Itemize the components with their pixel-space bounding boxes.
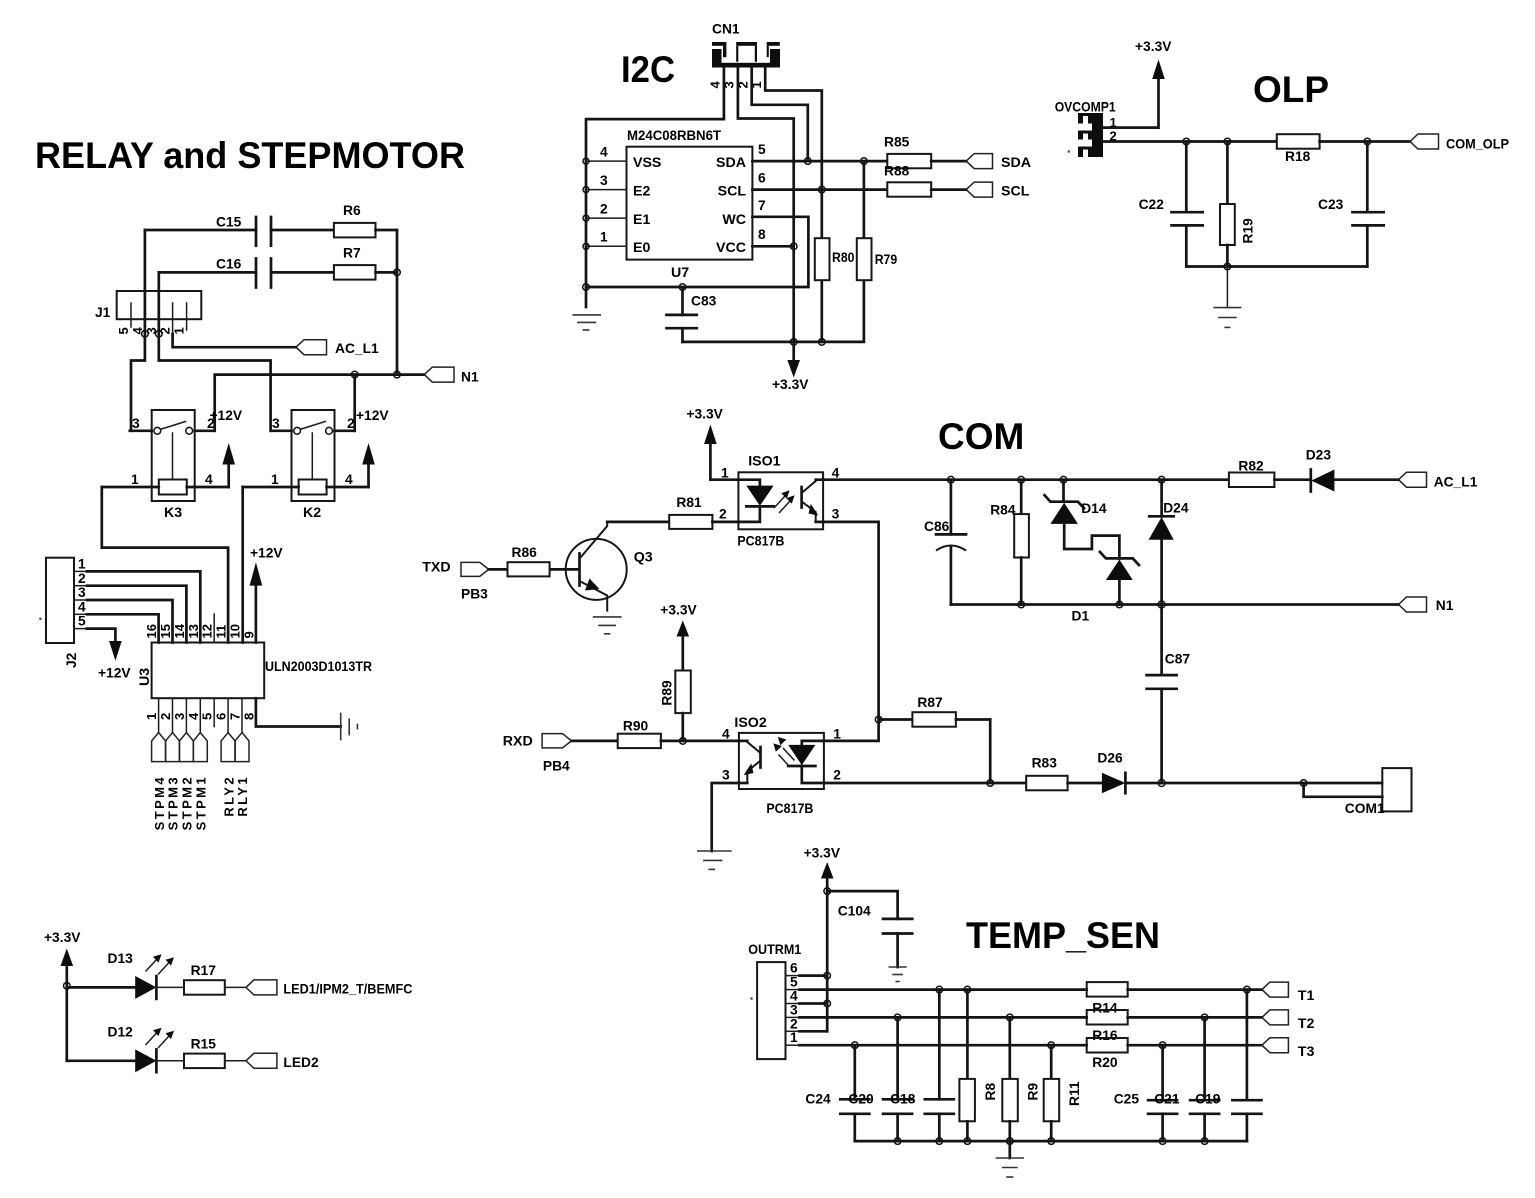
svg-text:8: 8 [241,713,256,720]
svg-text:OLP: OLP [1253,69,1329,110]
svg-text:R86: R86 [512,545,538,560]
wire N1 row COM [951,603,1399,606]
svg-text:RELAY and STEPMOTOR: RELAY and STEPMOTOR [35,135,465,176]
svg-text:D26: D26 [1097,751,1123,766]
svg-text:5: 5 [790,975,798,990]
relay K2 [243,410,369,521]
svg-text:11: 11 [214,625,229,639]
flag SDA [966,154,1031,171]
svg-text:3: 3 [832,507,840,522]
svg-text:4: 4 [345,472,353,487]
ground at I2C left bus [573,315,602,330]
svg-text:C23: C23 [1318,197,1344,212]
svg-text:+3.3V: +3.3V [1135,39,1172,54]
node N1/K2 [351,371,358,378]
svg-text:2: 2 [347,416,355,431]
node gnd bus left [583,284,590,291]
wire U7 pin6 SCL line [752,171,887,190]
resistor R81 [607,495,738,529]
svg-text:AC_L1: AC_L1 [1434,475,1478,490]
node R87 tap [875,716,882,723]
LED D13 [67,951,174,999]
ground at C104 [889,967,907,982]
resistor R85 [884,135,966,169]
svg-text:2: 2 [78,571,86,586]
svg-text:ULN2003D1013TR: ULN2003D1013TR [265,659,372,675]
flag RLY2 [221,733,236,817]
flag TXD [422,560,489,602]
resistor R8 [959,986,998,1141]
svg-text:PC817B: PC817B [737,534,784,549]
svg-text:R7: R7 [343,246,361,261]
svg-text:STPM3: STPM3 [166,775,181,830]
optocoupler ISO2 PC817B [722,715,841,816]
connector OVCOMP1 [1055,100,1117,158]
optocoupler ISO1 PC817B [719,453,840,548]
svg-text:VCC: VCC [716,240,746,256]
svg-text:R16: R16 [1092,1028,1118,1043]
capacitor C25 [1114,1042,1177,1141]
wire J1 pin3 to K2 pin3 [159,272,271,430]
wire J1 pin2 to AC_L1 flag [173,334,296,347]
power +3.3V at TEMP_SEN [804,846,841,1032]
wire K2 pin2 riser [353,375,356,431]
flag RLY1 [235,733,250,817]
wire U7 pin5 SDA line [752,142,887,161]
svg-text:+3.3V: +3.3V [804,846,841,861]
wire U7 pin4 stub [583,145,627,165]
svg-text:C22: C22 [1139,197,1165,212]
svg-text:R18: R18 [1285,149,1311,164]
svg-text:6: 6 [790,961,798,976]
ground at OLP [1213,267,1241,328]
capacitor C16 [159,257,334,288]
resistor R83 [1026,756,1102,791]
flag STPM2 [179,733,194,831]
connector CN1 [708,22,781,89]
svg-text:+12V: +12V [250,546,283,561]
svg-text:4: 4 [832,466,840,481]
svg-text:K2: K2 [303,505,321,521]
node C87/bus [1158,780,1165,787]
node bus/R80 [819,339,826,346]
zener diode D14 [1045,476,1120,558]
wire N1 bus [215,375,425,431]
svg-text:4: 4 [186,712,201,720]
svg-text:E2: E2 [633,184,650,200]
svg-text:2: 2 [600,202,608,217]
svg-text:D24: D24 [1163,501,1189,516]
flag N1 (COM) [1399,597,1454,613]
svg-text:T3: T3 [1298,1044,1315,1060]
svg-text:C25: C25 [1114,1092,1140,1107]
svg-text:PB3: PB3 [461,587,488,602]
svg-text:SCL: SCL [1001,184,1030,200]
svg-text:1: 1 [78,557,86,572]
svg-text:U3: U3 [137,668,153,686]
svg-text:1: 1 [790,1030,798,1045]
svg-text:M24C08RBN6T: M24C08RBN6T [627,128,721,144]
svg-text:OVCOMP1: OVCOMP1 [1055,100,1116,115]
svg-text:3: 3 [132,416,140,431]
resistor R14 [1087,982,1262,1015]
svg-text:COM_OLP: COM_OLP [1446,137,1509,152]
svg-text:C104: C104 [838,904,871,919]
svg-text:R9: R9 [1026,1083,1041,1101]
resistor R86 [489,545,550,576]
svg-text:COM1: COM1 [1345,801,1385,816]
svg-text:1: 1 [833,727,841,742]
LED D12 [67,1025,174,1073]
wire J2 pin4 to U3 pin16 [87,614,159,642]
svg-text:STPM4: STPM4 [152,775,167,830]
svg-text:R15: R15 [191,1037,217,1052]
wire K2 pin1 to U3 pin10 [241,487,244,643]
svg-text:+12V: +12V [356,408,389,423]
wire TEMP_SEN bottom bus [855,1140,1247,1143]
svg-text:VSS: VSS [633,155,661,171]
connector J1 [95,291,201,335]
svg-text:4: 4 [722,727,730,742]
svg-text:4: 4 [708,81,723,89]
flag COM_OLP [1410,134,1509,152]
svg-text:3: 3 [790,1002,798,1017]
power +12V at K2 [356,408,389,487]
svg-text:6: 6 [758,171,766,186]
svg-text:C24: C24 [805,1092,831,1107]
ground at U3 pin8 [341,713,358,741]
svg-text:15: 15 [158,624,173,638]
svg-text:R85: R85 [884,135,910,150]
wire OUTRM1 pin4 [800,1002,828,1005]
wire R6/R7 right vertical to N1 [396,230,399,375]
svg-text:E1: E1 [633,212,650,228]
capacitor C22 [1139,142,1203,267]
wire U7 pin2 stub [583,202,627,222]
power +3.3V down arrow I2C [772,342,809,392]
svg-text:5: 5 [116,327,131,334]
wire U3 pin4 stub [199,698,201,732]
capacitor C87 [1147,605,1191,784]
flag STPM4 [152,733,167,831]
node N1/R6R7 [394,371,401,378]
svg-text:C18: C18 [890,1092,916,1107]
resistor R84 [990,476,1029,604]
wire J2 pin2 to U3 pin14 [87,586,186,643]
wire U3 pin1 stub [158,698,160,732]
transistor Q3 [550,522,653,612]
node junction R7 [394,269,401,276]
wire J2 pin3 to U3 pin15 [87,600,173,643]
resistor R87 [879,695,991,727]
svg-text:RLY1: RLY1 [235,775,250,817]
resistor R17 [156,963,246,995]
svg-text:4: 4 [790,989,798,1004]
svg-text:4: 4 [600,145,608,160]
svg-text:D14: D14 [1081,501,1107,516]
svg-text:I2C: I2C [621,49,675,90]
node bus/C21 [1201,1138,1208,1145]
svg-text:1: 1 [721,466,729,481]
svg-text:PB4: PB4 [543,759,570,774]
svg-text:SCL: SCL [718,184,747,200]
wire U3 pin7 stub [241,698,243,732]
node bus/C18 [936,1138,943,1145]
wire ISO1 pin3 down to ISO2 pin1 [823,522,879,741]
svg-text:5: 5 [758,142,766,157]
svg-text:D23: D23 [1306,448,1332,463]
svg-text:T2: T2 [1298,1016,1315,1032]
node J1 pin4 [142,331,149,338]
svg-text:2: 2 [158,713,173,720]
wire CN1 pin4 to ground bus [586,68,724,308]
svg-text:RLY2: RLY2 [221,775,236,817]
node N1/D1 [1116,601,1123,608]
node VCC pin8 [790,243,797,250]
svg-text:LED2: LED2 [283,1055,319,1070]
node +3.3V/C104 [824,888,831,895]
svg-text:10: 10 [228,624,243,638]
svg-text:D13: D13 [108,951,134,966]
wire OUTRM1 pin2 [800,1030,828,1033]
svg-text:3: 3 [600,173,608,188]
flag T3 [1262,1038,1315,1060]
flag LED2 [246,1053,319,1070]
node SDA/CN1 pin2 [805,158,812,165]
wire ISO2 pin3 to ground [712,783,739,851]
wire T3 row [800,1044,1087,1047]
power +12V at U3 pin9 [250,546,284,643]
wire U3 pin8 to ground [256,698,341,726]
node pin4 [824,1000,831,1007]
wire U3 pin6 stub [227,698,229,732]
artifact dot near OVCOMP1 [1068,150,1071,153]
capacitor C104 [827,891,912,967]
svg-text:SDA: SDA [1001,155,1031,171]
capacitor C83 [667,284,717,342]
svg-text:D1: D1 [1072,609,1090,624]
wire R87 to R83 row [989,720,992,784]
svg-text:R82: R82 [1238,459,1264,474]
wire CN1 pin1 to SCL and R80 [765,68,822,239]
svg-text:D12: D12 [108,1025,134,1040]
node SCL/R80 [819,186,826,193]
svg-text:4: 4 [205,472,213,487]
node C22 tap [1183,138,1190,145]
power +3.3V at OVCOMP1 [1103,39,1172,128]
resistor R7 [334,246,397,280]
svg-text:C15: C15 [216,215,242,230]
resistor R19 [1220,142,1256,267]
svg-text:+12V: +12V [210,408,243,423]
diode D24 [1149,476,1189,604]
svg-text:1: 1 [271,472,279,487]
node bus/R11 [1048,1138,1055,1145]
flag AC_L1 [296,340,379,356]
svg-text:+3.3V: +3.3V [44,930,81,945]
wire J2 pin1 to U3 pin13 [87,571,200,642]
flag AC_L1 (COM) [1399,472,1478,489]
svg-text:1: 1 [600,230,608,245]
power +12V at J2 pin5 [87,629,131,681]
node LED branch [64,983,71,990]
svg-text:R79: R79 [875,252,898,267]
node bus/C20 [894,1138,901,1145]
svg-text:R11: R11 [1067,1081,1082,1106]
svg-text:+12V: +12V [98,666,131,681]
svg-text:2: 2 [719,507,727,522]
node bus/+3.3V [790,339,797,346]
svg-text:C87: C87 [1165,652,1191,667]
node C23 tap [1364,138,1371,145]
svg-text:+3.3V: +3.3V [660,603,697,618]
svg-text:TXD: TXD [422,560,450,576]
flag T1 [1262,982,1315,1004]
svg-text:R14: R14 [1092,1001,1118,1016]
resistor R18 [1277,134,1410,164]
wire U3 pin2 stub [172,698,174,732]
svg-text:9: 9 [241,631,256,638]
svg-text:J2: J2 [64,652,79,668]
svg-text:R81: R81 [676,495,702,510]
svg-text:C83: C83 [691,294,717,309]
svg-text:R8: R8 [983,1083,998,1101]
wire U3 pin3 stub [185,698,187,732]
svg-text:3: 3 [78,585,86,600]
capacitor C19 [1195,986,1261,1141]
svg-text:+3.3V: +3.3V [686,407,723,422]
svg-text:5: 5 [200,713,215,720]
resistor R80 [815,238,855,280]
ground at Q3 emitter [593,617,622,634]
connector J2 [46,557,87,669]
svg-text:R20: R20 [1092,1055,1118,1070]
resistor R9 [1002,1014,1040,1141]
svg-text:OUTRM1: OUTRM1 [748,942,801,957]
zener diode D1 lower [1072,552,1139,624]
svg-text:U7: U7 [671,265,689,281]
svg-text:12: 12 [200,624,215,638]
svg-text:Q3: Q3 [634,550,653,566]
ground at ISO2 pin3 [697,851,732,869]
svg-text:ISO2: ISO2 [734,715,766,731]
svg-text:LED1/IPM2_T/BEMFC: LED1/IPM2_T/BEMFC [283,982,412,997]
wire U7 pin1 stub [583,230,627,250]
svg-text:PC817B: PC817B [766,801,813,816]
svg-text:7: 7 [758,198,766,213]
flag STPM1 [193,733,208,831]
node R19 tap [1224,138,1231,145]
node N1/R84 [1018,601,1025,608]
connector COM1 [1304,768,1412,816]
resistor R88 [884,164,966,197]
svg-text:5: 5 [78,614,86,629]
svg-text:+3.3V: +3.3V [772,377,809,392]
svg-text:RXD: RXD [503,734,533,750]
svg-text:TEMP_SEN: TEMP_SEN [966,915,1160,956]
svg-text:7: 7 [228,713,243,720]
svg-text:C19: C19 [1195,1092,1221,1107]
capacitor C86 [924,476,966,604]
svg-text:T1: T1 [1298,988,1315,1004]
power +3.3V at LEDs [44,930,81,1061]
relay K3 [102,410,229,521]
node bus/C25 [1159,1138,1166,1145]
flag N1 (relay section) [424,367,479,384]
node bus/R9 [1007,1138,1014,1145]
svg-text:3: 3 [272,416,280,431]
wire U7 pin3 stub [583,173,627,193]
svg-text:K3: K3 [164,505,182,521]
svg-text:R88: R88 [884,164,910,179]
resistor R90 [572,719,739,749]
svg-text:6: 6 [214,713,229,720]
power +3.3V at ISO1 [686,407,738,480]
svg-text:C16: C16 [216,257,242,272]
node OLP bottom [1224,263,1231,270]
node COM1 pin2 [1300,780,1307,787]
wire OUTRM1 pin6 [800,974,828,977]
svg-text:E0: E0 [633,240,650,256]
connector OUTRM1 [748,942,801,1059]
flag STPM3 [166,733,181,831]
svg-text:R80: R80 [832,250,855,265]
svg-text:N1: N1 [461,370,479,385]
svg-text:SDA: SDA [716,155,746,171]
node R89/R90 [680,738,687,745]
node R87/R83 [987,780,994,787]
resistor R79 [857,161,898,280]
wire OLP bottom bus [1186,265,1367,268]
svg-text:C86: C86 [924,519,950,534]
node N1/D24 [1158,601,1165,608]
flag T2 [1262,1010,1315,1032]
artifact dot near J2 [39,618,42,621]
node pin6 [824,972,831,979]
capacitor C23 [1318,142,1384,267]
resistor R20 [1087,1038,1262,1070]
wire I2C +3.3V bus [683,280,864,342]
svg-text:2: 2 [790,1016,798,1031]
artifact dot near OUTRM1 [750,997,753,1000]
ground at TEMP_SEN [996,1141,1024,1177]
wire K3 pin1 to U3 pin11 [102,487,228,643]
svg-text:STPM1: STPM1 [194,775,209,830]
capacitor C21 [1154,1014,1219,1141]
resistor R11 [1044,1042,1082,1141]
svg-text:CN1: CN1 [712,22,740,37]
wire ISO1 pin4 bus to R82 [823,478,1229,481]
svg-text:1: 1 [131,472,139,487]
node J1 pin3 [156,331,163,338]
wire CN1 pin3 to VCC vertical [738,68,794,342]
wire U7 pin7 WC to ground bus [586,198,808,287]
svg-text:R90: R90 [623,719,649,734]
svg-text:AC_L1: AC_L1 [335,341,379,356]
svg-text:3: 3 [172,713,187,720]
wire T2 row [800,1016,1087,1019]
svg-text:1: 1 [144,713,159,720]
svg-text:ISO1: ISO1 [748,453,780,469]
capacitor C15 [145,215,334,246]
power +12V at K3 [210,408,243,487]
wire U7 pin8 VCC stub [752,227,793,246]
svg-text:3: 3 [722,768,730,783]
power +3.3V at R89 [660,603,697,671]
flag RXD [503,734,572,774]
wire OVCOMP1 pin2 row [1103,140,1277,143]
svg-text:14: 14 [172,623,187,638]
